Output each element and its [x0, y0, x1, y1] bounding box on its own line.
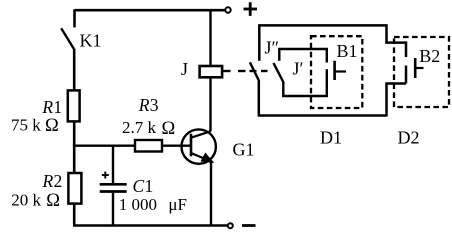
- dashed box D1: [311, 36, 362, 108]
- svg-text:D1: D1: [320, 128, 342, 148]
- svg-text:J: J: [181, 59, 188, 79]
- svg-text:1 000: 1 000: [119, 195, 157, 214]
- wire bottom rail: [73, 224, 227, 227]
- terminal + (open circle): [225, 7, 230, 12]
- dashed box D2: [394, 37, 449, 107]
- wire emitter to bottom rail: [210, 162, 212, 226]
- contact J'' blade: [250, 62, 259, 80]
- svg-text:Ω: Ω: [162, 119, 176, 139]
- svg-text:G1: G1: [233, 140, 255, 160]
- wire box left edge lower: [258, 80, 261, 117]
- wire top rail to relay coil: [209, 10, 211, 67]
- wire B2 top stub: [385, 41, 406, 44]
- bell B2: [406, 41, 424, 83]
- resistor R1: [68, 90, 80, 121]
- wire K1 to R1: [73, 49, 76, 91]
- svg-text:J″: J″: [265, 38, 280, 58]
- svg-text:B2: B2: [419, 46, 440, 66]
- wire R1 to node: [73, 121, 76, 145]
- contact J' fixed terminal: [278, 49, 280, 61]
- svg-text:2.7 k: 2.7 k: [122, 118, 157, 137]
- label + sign: [244, 2, 258, 16]
- wire R2 to bottom rail: [73, 204, 76, 226]
- svg-text:K1: K1: [80, 31, 102, 51]
- svg-text:2: 2: [54, 171, 63, 191]
- resistor R3: [135, 140, 162, 152]
- svg-text:R: R: [41, 97, 53, 117]
- svg-text:C: C: [133, 176, 145, 196]
- resistor R2: [68, 173, 81, 204]
- wire dashed mechanical linkage: [238, 70, 268, 72]
- wire inner loop bottom: [282, 95, 327, 97]
- svg-text:R: R: [42, 171, 54, 191]
- svg-text:R: R: [138, 95, 150, 115]
- svg-text:1: 1: [145, 176, 154, 196]
- contact J' blade: [274, 63, 284, 81]
- svg-text:20 k: 20 k: [11, 190, 41, 209]
- wire box right edge lower: [385, 84, 388, 117]
- wire box right edge upper: [385, 24, 388, 42]
- wire B2 bottom stub: [385, 82, 406, 85]
- wire node to R3: [73, 144, 135, 146]
- wire inner loop top: [278, 48, 327, 50]
- terminal - (open circle): [228, 223, 233, 228]
- wire J' hinge down: [282, 81, 284, 96]
- svg-text:B1: B1: [337, 41, 358, 61]
- wire R3 to base: [162, 144, 190, 146]
- outer loop box bottom edge: [258, 114, 387, 117]
- wire collector to relay coil: [209, 77, 211, 131]
- svg-text:μF: μF: [168, 195, 187, 214]
- switch K1: [61, 10, 74, 49]
- wire coil stub: [222, 70, 230, 72]
- relay coil J: [200, 66, 223, 77]
- label + polarity: [102, 172, 109, 179]
- wire node to R2: [73, 146, 76, 173]
- svg-text:75 k: 75 k: [11, 116, 41, 135]
- label - sign: [242, 224, 256, 227]
- svg-text:Ω: Ω: [46, 191, 60, 211]
- capacitor C1: [100, 146, 127, 226]
- svg-text:1: 1: [53, 97, 62, 117]
- node A: [73, 145, 76, 148]
- svg-text:Ω: Ω: [45, 116, 59, 136]
- svg-text:3: 3: [150, 95, 159, 115]
- transistor G1: [182, 129, 216, 163]
- svg-text:J′: J′: [293, 59, 304, 79]
- bell B1: [327, 48, 346, 97]
- contact J'' fixed terminal (box left edge upper): [258, 24, 261, 61]
- svg-text:D2: D2: [398, 128, 420, 148]
- outer loop box top edge: [259, 24, 386, 27]
- wire top rail: [75, 9, 226, 12]
